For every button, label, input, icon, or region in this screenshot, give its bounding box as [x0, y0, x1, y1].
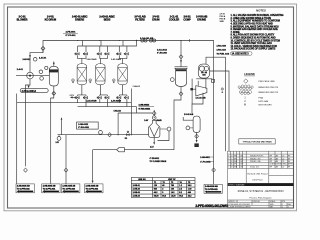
valve 2-AV-03B	[124, 53, 129, 55]
arrow regen exit	[70, 96, 73, 98]
svg-text:6"-RG-008: 6"-RG-008	[157, 53, 168, 55]
svg-text:2-V-03 A/B: 2-V-03 A/B	[184, 113, 194, 116]
adsorber column 2-AD-01B	[96, 64, 106, 85]
instrument bubble TI	[39, 70, 43, 74]
instrument bubble LI vessel	[186, 126, 190, 130]
svg-text:2-AV-06A/B: 2-AV-06A/B	[111, 58, 122, 61]
svg-text:APPR: APPR	[288, 163, 293, 166]
svg-text:9: 9	[162, 192, 163, 194]
svg-text:780: 780	[171, 185, 174, 187]
wire col3 top drops	[119, 46, 127, 52]
diamond box5	[212, 168, 216, 172]
adsorber column 2-AD-01C	[118, 64, 128, 85]
svg-text:120: 120	[154, 185, 157, 187]
svg-text:BEDS: BEDS	[104, 18, 111, 22]
svg-text:CHKD: CHKD	[282, 164, 288, 166]
inline filter symbols on header	[141, 39, 144, 42]
svg-text:2-GB-02: 2-GB-02	[133, 189, 140, 191]
arrow cylinder drain	[196, 140, 198, 143]
svg-text:ISSUED - IFA: ISSUED - IFA	[250, 160, 261, 163]
svg-text:860: 860	[154, 189, 157, 191]
svg-text:DRY GAS: DRY GAS	[259, 100, 269, 103]
compressor stage circle A	[199, 66, 204, 71]
arrow on feed drop	[29, 55, 31, 58]
svg-text:2-RG-0119: 2-RG-0119	[217, 50, 226, 52]
label right top lines	[217, 46, 230, 56]
svg-text:05A/B: 05A/B	[157, 119, 163, 122]
diamond under drum	[52, 91, 56, 95]
diamond on feed drop	[41, 46, 45, 50]
trapezoid compressor 2-K-02	[196, 86, 207, 96]
wire into flask neck	[153, 110, 155, 121]
wire cylinder vessel feed	[183, 117, 193, 120]
connector box 2	[42, 184, 60, 193]
svg-text:2-AV-01: 2-AV-01	[39, 57, 47, 60]
wire drum drain	[51, 86, 54, 184]
label 2-FE-0001 above header	[66, 32, 77, 38]
svg-text:CH4+H2: CH4+H2	[133, 85, 140, 88]
cylinder vessel 2-V-03	[193, 116, 200, 132]
svg-text:DWG NO: DWG NO	[253, 201, 261, 203]
flask feed label stack	[139, 104, 151, 111]
valve 2-AV-02A	[97, 53, 102, 55]
valve labels bottom row	[87, 100, 122, 103]
note marker circled 2	[221, 88, 223, 93]
svg-text:8.2: 8.2	[179, 192, 182, 194]
wire regen exit left	[72, 96, 78, 98]
compressor base line	[196, 78, 212, 80]
wire cylinder drain	[196, 133, 198, 140]
wire box5 drop	[213, 41, 215, 185]
svg-text:PSA: PSA	[259, 97, 264, 100]
svg-text:COOLER: COOLER	[169, 18, 179, 22]
label 2-K-02	[196, 96, 207, 99]
svg-text:BLOWER: BLOWER	[17, 18, 28, 22]
svg-text:SCALE: SCALE	[270, 200, 276, 203]
svg-text:160: 160	[171, 189, 174, 191]
valve 2-AV-02B	[104, 53, 109, 55]
svg-text:LNG Plant: LNG Plant	[252, 178, 262, 181]
arrow vent drop top	[61, 117, 63, 119]
label drain line	[150, 157, 167, 163]
svg-text:6"-RG-0031: 6"-RG-0031	[78, 127, 90, 129]
node junction dots	[118, 134, 119, 135]
svg-text:ISSUED FOR IFC: ISSUED FOR IFC	[250, 155, 264, 157]
svg-text:DRIERS: DRIERS	[75, 18, 84, 22]
instrument bulb col1 left	[72, 79, 75, 83]
wire trapezoid discharge	[205, 79, 207, 89]
wire compressor second line	[210, 71, 229, 151]
svg-text:MOTOR DRV: MOTOR DRV	[259, 105, 273, 107]
svg-text:2-RG-0108: 2-RG-0108	[217, 46, 226, 48]
adsorber column 2-AD-01A	[77, 64, 87, 85]
revision table	[228, 154, 294, 168]
border frame outer	[4, 4, 297, 211]
equipment title label 2-P-01 stack	[220, 14, 226, 23]
wire flask drain	[153, 137, 155, 142]
svg-text:4: 4	[228, 155, 229, 157]
note 14 boundary box	[231, 52, 253, 55]
equipment title label 2-V-01	[45, 14, 56, 21]
instrument circle on flask feed	[152, 116, 156, 120]
svg-text:2.5: 2.5	[179, 189, 182, 191]
wire pump drain	[26, 79, 31, 166]
node junction dot	[136, 40, 137, 41]
wire CH4 vertical	[130, 89, 132, 135]
instrument bubble PG	[45, 66, 48, 69]
svg-text:EF: EF	[288, 158, 290, 160]
valve labels top row	[87, 58, 122, 61]
svg-text:ZONE 01, SYSTEM 01 - DEHYDRATI: ZONE 01, SYSTEM 01 - DEHYDRATION	[238, 190, 284, 193]
svg-text:440: 440	[188, 191, 191, 194]
svg-text:EF: EF	[288, 167, 290, 169]
label 2-A-01	[17, 68, 24, 71]
legend cloud symbol row 1	[238, 85, 253, 90]
svg-text:FILTERS: FILTERS	[135, 18, 145, 22]
equipment title label 2-C-01	[17, 14, 28, 21]
title block bottom rows	[228, 200, 294, 208]
svg-text:2-ZONE SYSTEM 01-DEHYD: 2-ZONE SYSTEM 01-DEHYD	[228, 207, 251, 209]
instrument bubble FI	[40, 77, 44, 81]
svg-text:REMOVED 2ND TR: REMOVED 2ND TR	[259, 87, 279, 89]
svg-text:ISSUED - IFD: ISSUED - IFD	[250, 158, 261, 160]
svg-text:2-AV-012: 2-AV-012	[23, 58, 31, 61]
valve 2-AV-07B	[83, 97, 88, 99]
valve labels flask	[144, 119, 162, 122]
instrument bubble flask right	[167, 127, 171, 131]
equipment title label 2-F-01	[134, 14, 146, 21]
inline filter 2-OA-KOP label	[140, 37, 154, 40]
flask separator 2-CL-01	[149, 120, 160, 137]
svg-text:TO CLOSED DRAIN: TO CLOSED DRAIN	[150, 160, 167, 163]
wire CH4 jog	[118, 107, 152, 135]
valve 2-AV-03A	[116, 53, 121, 55]
svg-text:2-GB-01: 2-GB-01	[133, 185, 140, 187]
diamond box1	[24, 168, 28, 172]
label above cylinder vessel	[184, 113, 194, 116]
instrument circle on mid line	[99, 131, 103, 135]
wire trapezoid suction	[197, 81, 199, 87]
svg-text:1.2: 1.2	[179, 185, 182, 187]
svg-text:T1: T1	[154, 182, 156, 184]
svg-text:2-PKG-0001A: 2-PKG-0001A	[22, 90, 37, 93]
equipment title label 2-K-01	[183, 14, 191, 21]
svg-text:14.20: 14.20	[171, 195, 176, 198]
svg-text:4"-PG-0052: 4"-PG-0052	[200, 160, 210, 163]
connector box 3	[62, 184, 80, 193]
wire filter feed drop	[180, 41, 182, 64]
svg-text:2-PG: 2-PG	[70, 95, 75, 97]
border frame inner	[8, 7, 294, 208]
diamond cylinder drain	[195, 134, 199, 138]
wire col2 bottom manifold	[100, 85, 108, 107]
svg-text:2-AV-05A/B: 2-AV-05A/B	[87, 58, 98, 61]
svg-text:1: 1	[228, 167, 229, 169]
wire col2 top drops	[100, 46, 108, 52]
svg-text:TYPICAL FOR 2ND 3RD TRAIN: TYPICAL FOR 2ND 3RD TRAIN	[242, 140, 272, 143]
drain flag	[194, 143, 198, 147]
drawing title text	[238, 190, 284, 199]
wire box3 drop	[65, 135, 67, 184]
diamond box3	[64, 168, 68, 172]
instrument dark at trapezoid	[190, 88, 193, 90]
wire pump suction	[16, 75, 49, 77]
notes block	[231, 8, 284, 55]
svg-text:SKID: SKID	[220, 21, 225, 23]
svg-text:T2: T2	[163, 182, 165, 184]
instrument bulb col1 right	[89, 79, 92, 83]
stream data table	[131, 178, 195, 198]
black band	[228, 183, 294, 186]
wire header A	[43, 41, 214, 53]
svg-text:Process Flow Diagram: Process Flow Diagram	[249, 196, 271, 199]
compressor stage circle B	[204, 66, 208, 70]
wire col3 top manifold	[119, 55, 127, 64]
connector box 1	[16, 184, 34, 193]
svg-text:90.2: 90.2	[162, 196, 166, 198]
node junction dots header A	[77, 40, 182, 41]
diamond under filter	[179, 92, 183, 96]
wire header D dry gas	[78, 106, 137, 108]
svg-text:98.2: 98.2	[179, 196, 183, 198]
svg-text:1.60: 1.60	[188, 189, 192, 191]
svg-text:2-FI: 2-FI	[56, 142, 60, 144]
svg-text:REMOVED 3RD TR: REMOVED 3RD TR	[259, 92, 279, 94]
typical note box	[239, 139, 275, 144]
svg-text:KO DRUM: KO DRUM	[45, 18, 56, 22]
legend diamond symbol	[244, 79, 248, 83]
equipment title label 2-AD-01 A/B/C	[72, 14, 88, 21]
wire box4 drop	[92, 150, 94, 181]
pentagon flag connector	[117, 148, 125, 152]
svg-text:UNIT OP: UNIT OP	[168, 179, 176, 181]
node tick on header	[189, 39, 191, 41]
label CH4 branch2	[114, 110, 121, 113]
valve 2-AV-08B	[104, 97, 109, 99]
svg-text:SHT: SHT	[270, 207, 273, 209]
instrument bubble left end	[57, 137, 61, 141]
wire col1 top manifold	[78, 55, 86, 64]
svg-text:COMP: COMP	[183, 18, 191, 22]
label flask drain	[150, 147, 155, 149]
svg-text:PROCESS LINE: PROCESS LINE	[259, 81, 276, 83]
valve 2-AV-08A	[97, 97, 102, 99]
wire compressor top to right header	[206, 57, 225, 151]
compressor package 2-K-01 enclosure	[198, 64, 209, 78]
compressor aux box	[212, 79, 215, 82]
mid label box regen gas	[77, 122, 99, 129]
svg-text:2-PFD-00001-001.DWG: 2-PFD-00001-001.DWG	[195, 204, 228, 208]
arrow drum feed	[53, 63, 55, 65]
connector box 5	[204, 184, 222, 193]
wire pentagon line	[93, 149, 174, 151]
legend cloud symbol row 2	[239, 90, 251, 95]
label CH4 branch	[133, 85, 140, 88]
svg-text:T5: T5	[188, 182, 190, 184]
wire header A-B risers	[83, 41, 123, 47]
arrow flask drain	[153, 142, 155, 145]
equipment title label 2-AD-02	[99, 14, 115, 21]
flask internal cone	[150, 127, 159, 137]
wire col1 top drops	[78, 46, 86, 52]
svg-text:CH4+N2: CH4+N2	[114, 110, 121, 113]
instrument bulb col3 left	[112, 79, 115, 83]
label to battery limit	[200, 157, 210, 164]
compressor motor blob	[201, 72, 207, 76]
svg-text:LINE NO: LINE NO	[138, 179, 146, 181]
valve 2-AV-01B	[83, 53, 88, 55]
svg-text:4"-DR-0012: 4"-DR-0012	[150, 157, 160, 160]
svg-text:Hanford LNG Project: Hanford LNG Project	[247, 173, 268, 176]
project cell dividers	[246, 168, 293, 183]
svg-text:14.2: 14.2	[171, 191, 175, 194]
wire pump inlet drop	[30, 51, 43, 73]
equipment title label 2-CL-01	[169, 14, 179, 21]
diamond on filter feed	[179, 55, 183, 59]
svg-text:Vendor Item: Vendor Item	[250, 166, 260, 169]
wire flask recycle loop	[158, 131, 170, 141]
legend block	[238, 73, 278, 106]
svg-text:13. PACKAGE SCOPE OF SUPPLY LI: 13. PACKAGE SCOPE OF SUPPLY LIMITS	[231, 48, 276, 51]
svg-text:DRUM: DRUM	[152, 18, 159, 22]
FO valve on mid line	[126, 134, 129, 136]
svg-text:2: 2	[228, 164, 229, 166]
instrument bubble filter dp	[170, 78, 174, 82]
valve 2-AV-09A	[116, 97, 121, 99]
svg-text:TO FUEL GAS: TO FUEL GAS	[217, 52, 230, 55]
svg-text:2-GB-04: 2-GB-04	[133, 195, 141, 198]
svg-text:44.2: 44.2	[154, 191, 158, 194]
wire col2 top manifold	[100, 55, 108, 64]
svg-text:2-AV-08A/B: 2-AV-08A/B	[111, 100, 122, 103]
valve 2-AV-01A	[75, 53, 80, 55]
diamond on mid line	[108, 133, 112, 137]
project name cell	[247, 173, 268, 182]
title block	[228, 151, 294, 208]
svg-text:2-K-02 A/B: 2-K-02 A/B	[196, 96, 207, 99]
wire long left vertical	[16, 94, 18, 184]
equipment title label 2-V-02	[152, 14, 160, 21]
svg-text:2-GB-0022: 2-GB-0022	[78, 124, 89, 126]
wire mid horizontal line	[58, 134, 149, 136]
arrow on filter feed	[180, 60, 182, 63]
wire drum feed top	[53, 62, 55, 67]
equipment title label 2-V-03	[196, 14, 208, 21]
svg-text:6"-RG-00441: 6"-RG-00441	[139, 108, 151, 111]
svg-text:2-A-01: 2-A-01	[17, 68, 24, 71]
svg-text:2-PFD-00001-001 LNG-0001: 2-PFD-00001-001 LNG-0001	[228, 204, 250, 206]
wire compressor suction left	[191, 79, 193, 104]
svg-text:2-AV-07A/B: 2-AV-07A/B	[87, 100, 98, 103]
stadium label blower pkg	[20, 89, 48, 93]
svg-text:45: 45	[162, 184, 164, 187]
svg-text:3: 3	[228, 158, 229, 160]
blower C-01	[27, 72, 34, 79]
svg-text:42.2: 42.2	[188, 195, 192, 198]
svg-text:2-GB-03: 2-GB-03	[133, 192, 140, 194]
svg-text:DRUMS: DRUMS	[197, 18, 206, 22]
valve 2-AV-07A	[75, 97, 80, 99]
wire header B	[78, 41, 137, 47]
label from regen heater	[157, 49, 168, 55]
svg-text:LEVEL 2 DIAGRAM: LEVEL 2 DIAGRAM	[228, 183, 244, 186]
instrument bubble PI	[33, 58, 37, 62]
svg-text:8"-PG-001: 8"-PG-001	[66, 35, 77, 37]
wire col1 bottom manifold	[78, 85, 86, 107]
wire header C regen	[17, 102, 132, 104]
wire filter drain	[174, 86, 181, 149]
drum 2-V-01	[49, 66, 58, 86]
svg-text:T3: T3	[171, 182, 173, 184]
filter vessel 2-F-01	[175, 64, 188, 87]
arrow box4	[92, 181, 94, 184]
arrow into stadium label	[28, 86, 30, 89]
svg-text:2-GA-0012: 2-GA-0012	[157, 49, 168, 52]
svg-text:98.20: 98.20	[154, 196, 159, 198]
svg-text:2: 2	[288, 207, 289, 209]
svg-text:NOTES: NOTES	[256, 8, 266, 12]
wire vent drop	[61, 119, 63, 135]
connector box 4	[85, 184, 103, 193]
cad info strip	[195, 204, 228, 208]
svg-text:1: 1	[282, 207, 283, 209]
diamond on flask feed	[152, 111, 156, 115]
wire trapezoid to vessel	[192, 93, 203, 113]
svg-text:98.2: 98.2	[188, 185, 192, 187]
valve 2-AV-09B	[124, 97, 129, 99]
svg-text:M: M	[244, 105, 246, 107]
wire col3 bottom manifold	[119, 85, 127, 107]
svg-text:EF: EF	[288, 155, 290, 157]
